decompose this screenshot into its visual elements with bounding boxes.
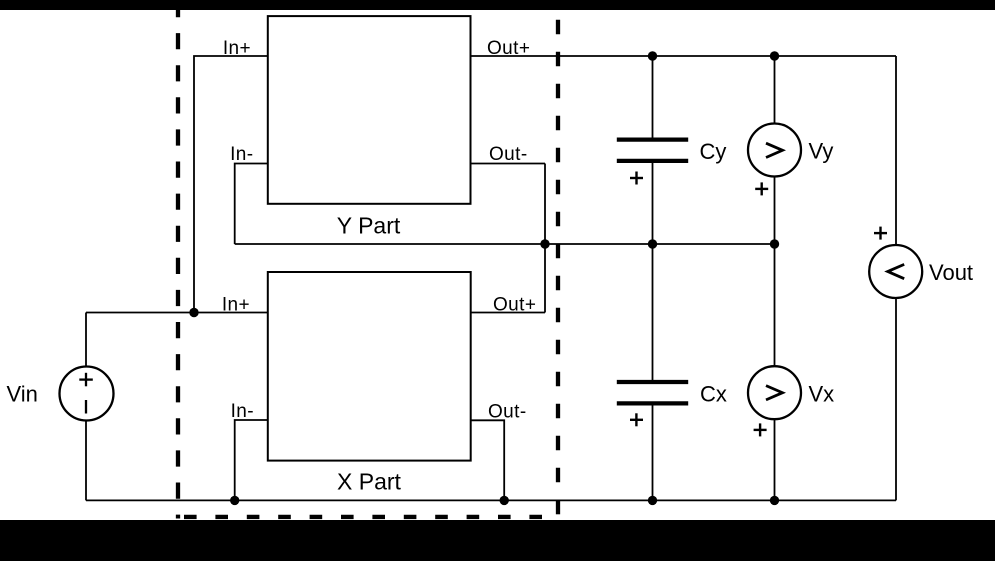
wire Cx bottom lead: [652, 406, 654, 501]
junction mid rail Cy: [648, 239, 657, 248]
junction mid rail Vy: [770, 239, 779, 248]
svg-text:In+: In+: [222, 295, 250, 316]
svg-text:Vx: Vx: [809, 382, 835, 407]
svg-text:Out-: Out-: [488, 401, 527, 422]
wire Vout top vertical: [895, 56, 897, 246]
wire Out- Y / Out+ X vertical: [544, 164, 546, 313]
voltmeter Vout: [869, 227, 922, 298]
wire Vout bottom vertical: [895, 298, 897, 501]
junction bottom rail Out- X: [500, 496, 509, 505]
junction top rail Vy: [770, 51, 779, 60]
svg-text:In-: In-: [230, 144, 253, 165]
wire In+ X horizontal from Vin: [86, 312, 268, 314]
wire Cy bottom lead: [652, 163, 654, 244]
capacitor Cy: [617, 140, 688, 185]
svg-text:Vy: Vy: [809, 139, 834, 164]
wire Out- X stub down to bottom rail: [471, 420, 505, 500]
block Y Part box: [268, 16, 471, 204]
junction top rail Cy: [648, 51, 657, 60]
wire Cx top lead: [652, 244, 654, 380]
svg-text:Vout: Vout: [929, 260, 973, 285]
voltage source Vin: [60, 367, 114, 421]
junction bottom rail In- X: [230, 496, 239, 505]
svg-text:Cx: Cx: [700, 382, 727, 407]
wire In- Y stub down to mid rail: [235, 164, 268, 245]
wire Vx top lead: [774, 244, 776, 367]
wire Cy top lead: [652, 56, 654, 138]
capacitor Cx: [617, 382, 688, 426]
wire mid rail: [235, 243, 775, 245]
svg-text:Out+: Out+: [487, 38, 530, 59]
svg-text:Y Part: Y Part: [337, 213, 401, 239]
block X Part box: [268, 272, 471, 461]
wire top rail Out+ Y: [471, 55, 897, 57]
wire Vy bottom lead: [774, 177, 776, 245]
voltmeter Vx: [748, 366, 801, 436]
dashed boundary left: [176, 10, 180, 519]
junction bottom rail Cx: [648, 496, 657, 505]
wire In+ Y stub and vertical link to X In+: [194, 56, 268, 313]
svg-text:Cy: Cy: [700, 139, 727, 164]
svg-text:In-: In-: [231, 401, 254, 422]
wire Vin top vertical: [85, 313, 87, 367]
junction In+ node: [189, 308, 198, 317]
svg-text:Out+: Out+: [493, 295, 536, 316]
wire Vy top lead: [774, 56, 776, 124]
wire Vx bottom lead: [774, 420, 776, 501]
junction Out-Y/Out+X node: [540, 239, 549, 248]
voltmeter Vy: [748, 124, 801, 196]
wire In- X stub down to bottom rail: [235, 420, 268, 500]
dashed boundary right: [556, 10, 560, 519]
wire Out- Y stub: [471, 163, 546, 165]
svg-text:In+: In+: [223, 38, 251, 59]
dashed boundary bottom: [177, 515, 545, 519]
wire Out+ X stub: [471, 312, 546, 314]
svg-text:X Part: X Part: [337, 469, 402, 495]
svg-text:Vin: Vin: [7, 382, 38, 407]
wire bottom rail: [86, 499, 896, 501]
svg-text:Out-: Out-: [489, 144, 528, 165]
junction bottom rail Vx: [770, 496, 779, 505]
wire Vin bottom vertical: [85, 421, 87, 501]
